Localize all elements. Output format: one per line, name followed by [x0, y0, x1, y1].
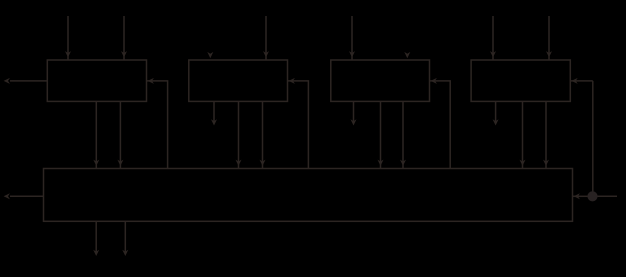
arrowhead feedback into U2: [289, 78, 295, 84]
arrowhead a1: [65, 51, 71, 57]
arrowhead U5 down1: [93, 250, 99, 256]
wire U3 output 1 down to U5: [380, 101, 382, 168]
wire feedback into U3 right side: [430, 81, 451, 169]
arrowhead U1 left output: [4, 78, 10, 84]
arrowhead a4: [490, 51, 496, 57]
arrowhead feedback into U3: [431, 78, 437, 84]
wire U3 output 2 down to U5: [402, 101, 404, 168]
wire U5 output down 1: [95, 221, 97, 253]
arrowhead dot into U5: [574, 193, 580, 199]
wire U5 output down 2: [124, 221, 126, 253]
wire input b4 to U4: [548, 16, 550, 60]
arrowhead b1: [121, 51, 127, 57]
wire U2 output 1 down to U5: [238, 101, 240, 168]
wire U2 carry out short: [213, 101, 215, 121]
node dot junction: [587, 191, 597, 201]
control block U5: [44, 169, 573, 222]
wire input a3 to U3: [351, 16, 353, 60]
wire U1 output 1 down to U5: [95, 101, 97, 168]
arrowhead U4 out2 into U5: [543, 160, 549, 166]
arrowhead U1 out1 into U5: [93, 160, 99, 166]
arrowhead b2: [263, 51, 269, 57]
arrowhead U3 out2 into U5: [400, 160, 406, 166]
wire input a1 to U1: [67, 16, 69, 60]
wire feedback vertical at far right into dot: [570, 80, 593, 82]
wire feedback into U1 right side: [147, 81, 168, 169]
wire input b1 to U1: [123, 16, 125, 60]
wire feedback into U2 right side: [288, 81, 309, 169]
arrowhead feedback into U4: [571, 78, 577, 84]
arrowhead stub c into U2: [207, 52, 213, 58]
register block U2: [189, 60, 288, 101]
wire U4 output 1 down to U5: [522, 101, 524, 168]
wire dot to U5 right side: [573, 195, 588, 197]
register block U1: [47, 60, 146, 101]
wire U4 output 2 down to U5: [545, 101, 547, 168]
arrowhead a3: [349, 51, 355, 57]
wire U2 output 2 down to U5: [262, 101, 264, 168]
arrowhead U5 left output: [4, 193, 10, 199]
wire input a4 to U4: [492, 16, 494, 60]
arrowhead stub c into U3: [404, 52, 410, 58]
arrowhead U1 out2 into U5: [117, 160, 123, 166]
wire input b2 to U2: [265, 16, 267, 60]
arrowhead feedback into U1: [148, 78, 154, 84]
arrowhead U2 out1 into U5: [236, 160, 242, 166]
wire U3 carry out short: [353, 101, 355, 121]
arrowhead U5 down2: [122, 250, 128, 256]
wire carry-in stub from right: [593, 195, 617, 197]
arrowhead U2 out2 into U5: [260, 160, 266, 166]
arrowhead U4 out1 into U5: [520, 160, 526, 166]
arrowhead U3 carry short: [351, 119, 357, 125]
wire U4 carry out short: [495, 101, 497, 121]
arrowhead U2 carry short: [211, 119, 217, 125]
wire U5 output to left: [10, 195, 44, 197]
arrowhead b4: [546, 51, 552, 57]
register block U4: [471, 60, 570, 101]
wire U1 output 2 down to U5: [119, 101, 121, 168]
arrowhead U3 out1 into U5: [378, 160, 384, 166]
arrowhead U4 carry short: [493, 119, 499, 125]
register block U3: [331, 60, 430, 101]
wire output of U1 to left: [10, 80, 47, 82]
